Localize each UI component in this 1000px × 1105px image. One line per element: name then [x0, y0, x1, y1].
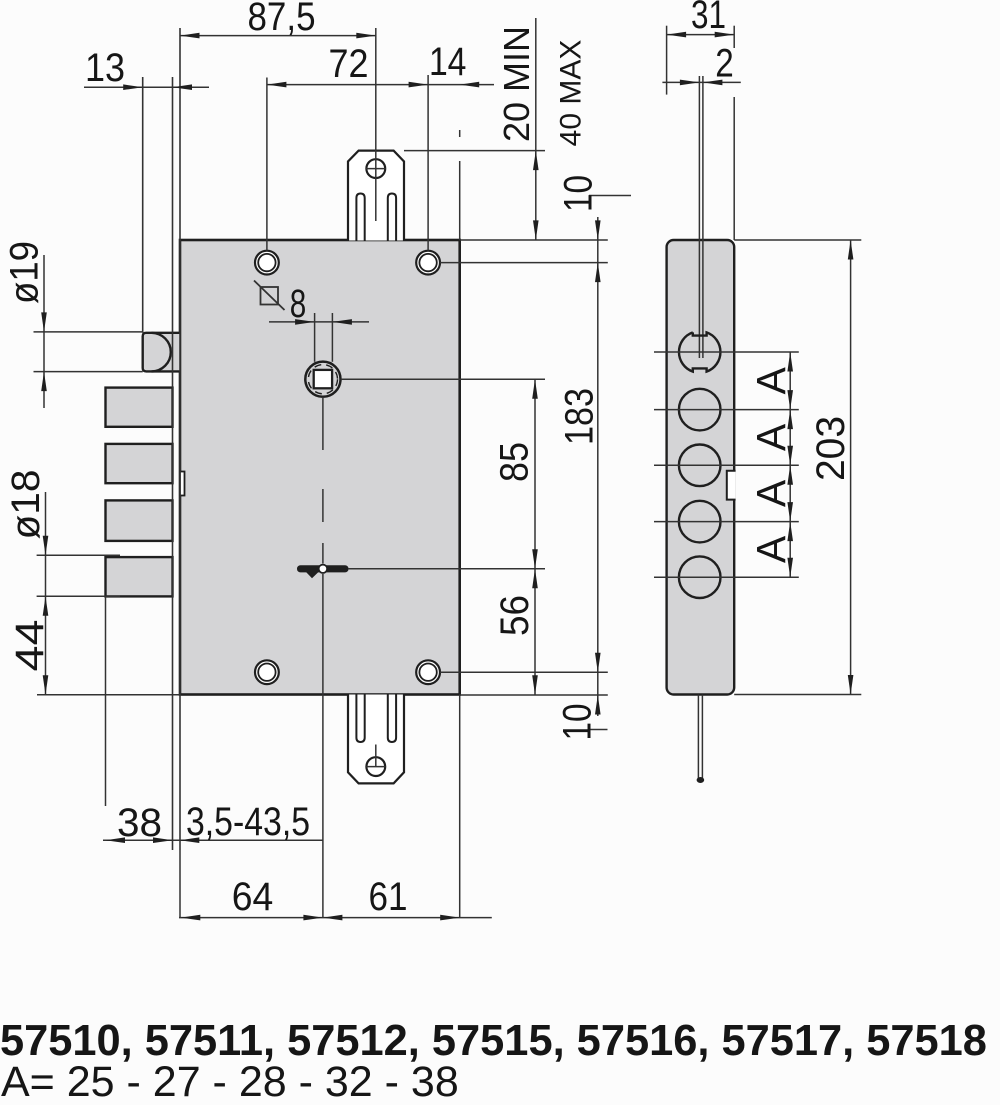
svg-text:14: 14: [429, 40, 467, 84]
svg-text:A: A: [748, 479, 794, 507]
svg-text:ø19: ø19: [2, 241, 46, 304]
svg-text:72: 72: [329, 42, 369, 86]
svg-text:ø18: ø18: [4, 470, 48, 540]
svg-text:10: 10: [556, 175, 600, 212]
svg-text:A= 25 - 27 - 28 - 32 - 38: A= 25 - 27 - 28 - 32 - 38: [1, 1058, 459, 1105]
svg-text:64: 64: [232, 875, 274, 919]
svg-text:44: 44: [8, 620, 52, 672]
svg-text:A: A: [748, 366, 794, 394]
svg-text:13: 13: [85, 46, 125, 90]
svg-text:10: 10: [555, 704, 599, 741]
svg-text:8: 8: [290, 282, 307, 326]
svg-text:38: 38: [117, 801, 162, 845]
svg-text:56: 56: [493, 595, 537, 636]
svg-text:31: 31: [691, 0, 726, 37]
svg-text:61: 61: [369, 875, 408, 919]
svg-text:40 MAX: 40 MAX: [554, 40, 587, 147]
svg-text:3,5-43,5: 3,5-43,5: [186, 800, 310, 844]
svg-text:A: A: [748, 423, 794, 451]
svg-text:183: 183: [557, 388, 601, 445]
svg-text:20 MIN: 20 MIN: [496, 26, 537, 142]
svg-text:2: 2: [715, 42, 734, 86]
svg-text:A: A: [748, 535, 794, 563]
svg-text:203: 203: [809, 416, 853, 481]
svg-text:85: 85: [492, 442, 536, 482]
svg-text:87,5: 87,5: [248, 0, 316, 39]
